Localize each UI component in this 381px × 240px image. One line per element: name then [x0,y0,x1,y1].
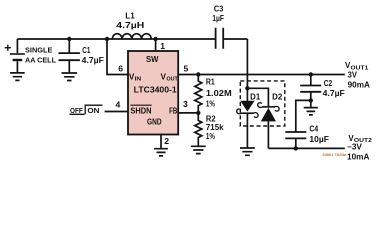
svg-text:C2: C2 [324,79,333,88]
svg-text:LTC3400-1: LTC3400-1 [134,85,178,94]
capacitor C2 [300,75,321,108]
junction C1 top node [67,37,71,41]
ground (C1) [62,73,78,81]
wire C3 branch down to diodes [246,39,248,88]
switch OFF/ON [70,106,100,115]
svg-text:OUT: OUT [167,77,179,83]
wire VOUT2 rail [268,147,344,149]
node VOUT1 output labels [345,61,370,89]
svg-text:IN: IN [135,77,142,83]
junction ground node below C2 [309,98,313,102]
label R2 value [206,114,224,140]
capacitor C4 [285,132,306,148]
svg-text:5: 5 [184,64,189,74]
junction C4 bottom on VOUT2 rail [294,146,298,150]
IC GND lead (pin 2) [160,135,162,149]
wire VOUT1 rail (pin 5) [178,74,345,76]
SHDN overline [130,104,151,106]
svg-text:1%: 1% [206,132,215,141]
svg-text:SINGLE: SINGLE [25,46,52,55]
svg-text:10mA: 10mA [347,152,370,161]
ground (C2) [304,108,318,115]
svg-text:D2: D2 [272,92,283,101]
wire SHDN lead (pin 4) [105,111,128,113]
resistor R1 [195,75,202,113]
junction SW / L1 right node [153,37,157,41]
wire battery plus lead [16,39,18,53]
battery BT1 plus sign [5,45,11,51]
svg-text:R1: R1 [206,78,215,87]
svg-text:C3: C3 [214,4,224,13]
svg-text:GND: GND [147,118,162,127]
svg-text:C1: C1 [82,46,91,55]
svg-text:AA CELL: AA CELL [25,56,56,65]
node VOUT2 output labels [347,134,372,162]
capacitor C3 [216,28,248,49]
label L1 value [116,11,144,30]
IC pin name labels [129,55,179,127]
ground (R2) [191,146,206,153]
svg-text:4: 4 [116,100,121,110]
svg-text:3V: 3V [348,71,358,80]
svg-text:1.02M: 1.02M [206,89,232,98]
capacitor C1 [59,39,80,73]
dual schottky package dashed box [240,81,284,126]
svg-text:FB: FB [169,107,177,116]
ground (IC GND) [154,149,168,156]
label R1 value [206,78,232,109]
svg-text:C4: C4 [309,124,318,133]
label C1 value [82,46,104,65]
svg-text:ON: ON [87,106,99,115]
junction R1 top on VOUT1 rail [196,72,200,76]
label SINGLE AA CELL [25,46,56,65]
IC U1 LTC3400-1 [128,51,178,135]
wire ground node to C4 [296,100,311,132]
svg-text:L1: L1 [125,11,135,20]
svg-text:1%: 1% [206,100,215,109]
wire top rail from battery to C3 [17,38,215,40]
svg-text:R2: R2 [206,114,216,123]
junction C2 top on VOUT1 rail [309,72,313,76]
svg-text:1: 1 [160,41,165,51]
junction VIN / L1 left node [105,37,109,41]
svg-text:4.7µF: 4.7µF [82,56,104,65]
svg-text:SW: SW [146,55,159,64]
diode D2 (schottky, cathode top) [247,88,279,148]
battery BT1 [10,54,25,73]
diode D1 (schottky, anode top) [237,88,258,148]
ground (D1) [240,148,255,155]
ground (battery) [10,73,25,81]
label C4 value [309,124,329,144]
svg-text:SHDN: SHDN [130,106,151,115]
svg-text:4.7µH: 4.7µH [116,21,144,30]
resistor R2 [195,113,202,146]
junction FB node (R1/R2) [196,111,200,115]
svg-text:D1: D1 [250,92,261,101]
label C3 value [212,4,224,23]
svg-text:−3V: −3V [347,142,363,151]
junction charge-pump node (C3/D1/D2) [245,86,249,90]
svg-text:OFF: OFF [70,106,83,115]
label C2 value [323,79,345,98]
svg-text:6: 6 [118,64,123,74]
wire FB lead (pin 3) [178,112,198,114]
svg-text:10µF: 10µF [309,135,329,144]
svg-text:3: 3 [183,99,188,109]
svg-text:1µF: 1µF [212,14,224,23]
wire VIN lead (pin 6) [107,39,128,75]
svg-text:90mA: 90mA [348,80,371,89]
wire SW lead (pin 1) [155,39,157,51]
inductor L1 [112,34,151,39]
svg-text:34001 TA03a: 34001 TA03a [322,152,347,157]
svg-text:2: 2 [164,136,169,146]
svg-text:4.7µF: 4.7µF [323,89,345,98]
